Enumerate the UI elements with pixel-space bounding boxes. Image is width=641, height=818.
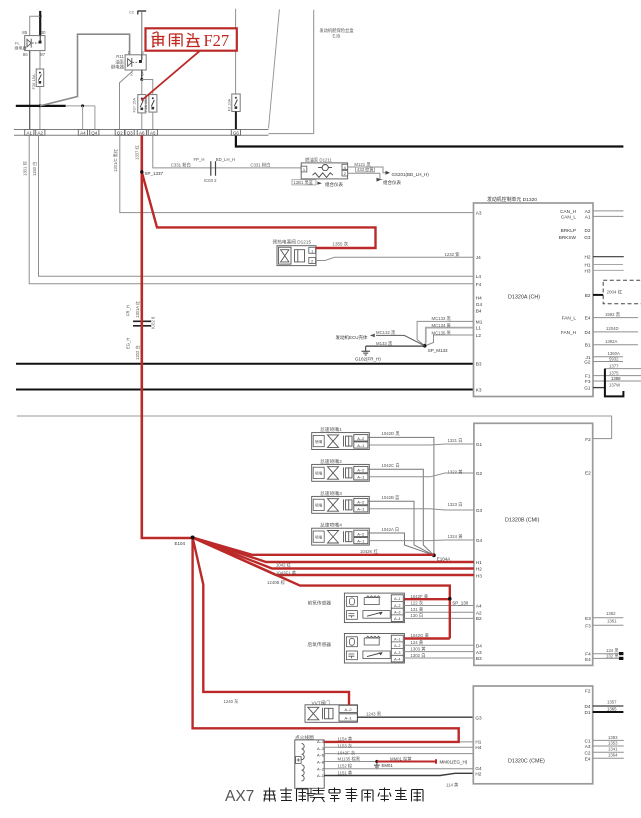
svg-text:L4: L4	[476, 274, 482, 279]
svg-text:A–2: A–2	[357, 500, 365, 505]
svg-text:Q2: Q2	[117, 130, 124, 135]
svg-text:1240 灰: 1240 灰	[224, 698, 240, 705]
wire F28 to bus A5	[152, 112, 154, 129]
wire G6 heavy output rail	[236, 135, 624, 146]
injector 4	[312, 522, 370, 545]
svg-text:C331 粉白: C331 粉白	[250, 162, 270, 169]
svg-text:G4: G4	[476, 302, 483, 307]
svg-text:喷嘴: 喷嘴	[315, 535, 323, 540]
svg-text:G3: G3	[475, 716, 482, 721]
svg-text:CAN_H: CAN_H	[560, 209, 576, 214]
wire into F27	[141, 80, 143, 95]
wire H3	[593, 269, 624, 271]
svg-text:1042F 灰: 1042F 灰	[338, 749, 356, 756]
wire red branch SP_1337 to D1215 pin1	[142, 172, 376, 248]
wire 124 rear O2 to ECU D4	[403, 644, 474, 646]
svg-text:1323 白: 1323 白	[448, 501, 463, 508]
svg-text:E104: E104	[175, 541, 186, 546]
wire loop to ECU2 F2	[17, 416, 612, 439]
relay FL	[25, 36, 45, 51]
svg-text:D1320A (CH): D1320A (CH)	[508, 295, 540, 301]
svg-text:1153 灰: 1153 灰	[338, 742, 353, 749]
svg-text:FAN_L: FAN_L	[562, 316, 577, 321]
wire drop to bus A4	[82, 106, 84, 130]
wire G1 heavy bracket	[605, 369, 624, 397]
node SP_M133 splice	[423, 344, 427, 348]
fuse F26 15A	[36, 69, 44, 87]
svg-text:怠速喷嘴1: 怠速喷嘴1	[320, 426, 342, 433]
rear oxygen sensor	[308, 634, 405, 664]
wire F2 to bus G6	[235, 112, 237, 130]
svg-text:L2: L2	[476, 333, 482, 338]
svg-text:30: 30	[41, 30, 46, 35]
svg-text:发动机控制单元 D1320: 发动机控制单元 D1320	[487, 196, 537, 203]
wire G1	[593, 387, 605, 389]
wire B1 1392A	[593, 344, 638, 346]
svg-text:F3: F3	[585, 623, 591, 628]
svg-text:A–1: A–1	[394, 597, 400, 601]
wire 1042 red to ECU2 H1	[193, 538, 474, 563]
svg-text:CAN_L: CAN_L	[561, 214, 577, 219]
svg-text:J4: J4	[476, 255, 481, 260]
svg-text:EM01: EM01	[382, 763, 394, 768]
svg-text:1042K 红: 1042K 红	[360, 548, 379, 554]
svg-text:H2: H2	[475, 771, 481, 776]
svg-text:A–3: A–3	[394, 651, 400, 655]
connector C331 inline pair	[211, 161, 216, 176]
svg-text:F26 15A: F26 15A	[31, 74, 36, 89]
svg-text:继电器: 继电器	[111, 64, 125, 71]
svg-text:A6: A6	[139, 130, 145, 135]
svg-text:C2: C2	[129, 11, 134, 15]
svg-text:A–1: A–1	[357, 539, 365, 544]
node bus cell Q3	[125, 130, 134, 136]
svg-text:怠速喷嘴4: 怠速喷嘴4	[320, 522, 342, 529]
svg-text:1321 白: 1321 白	[448, 437, 463, 444]
wire FAN_H D4 1204D	[593, 331, 638, 333]
wire 1042A injector4 A-2 to E104A	[368, 533, 434, 555]
svg-text:137W: 137W	[609, 382, 621, 387]
wire 131 front O2 to ECU A2	[403, 611, 474, 613]
svg-text:D1: D1	[585, 710, 591, 715]
svg-text:D4: D4	[585, 704, 591, 709]
wire MC132 ECU housing to splice	[376, 335, 425, 345]
svg-text:B1: B1	[585, 343, 591, 348]
svg-text:A–2: A–2	[394, 604, 400, 608]
svg-text:BD_LH_H: BD_LH_H	[216, 157, 235, 162]
svg-text:A–1: A–1	[357, 475, 365, 480]
svg-text:FL: FL	[15, 40, 20, 45]
svg-text:D1320B (CMI): D1320B (CMI)	[505, 518, 540, 524]
svg-text:1362: 1362	[606, 611, 616, 616]
svg-text:F3: F3	[585, 379, 591, 384]
svg-text:1240B 棕: 1240B 棕	[267, 579, 286, 586]
node bus cell A2	[36, 130, 45, 136]
wire supply to fuse F2	[235, 9, 237, 94]
svg-text:A2: A2	[585, 209, 591, 214]
svg-text:SP_130: SP_130	[452, 600, 469, 605]
wire to ECU2 H3	[193, 538, 474, 576]
svg-text:H3: H3	[585, 268, 591, 273]
svg-text:1360A: 1360A	[608, 351, 621, 356]
svg-text:A–4: A–4	[317, 739, 325, 744]
wire heavy feed bar	[16, 105, 66, 107]
svg-text:1392A: 1392A	[605, 339, 618, 344]
node bus cell A4	[78, 130, 87, 136]
GROUPS INSERTED BELOW	[15, 11, 130, 130]
svg-text:E4: E4	[585, 316, 591, 321]
wire 1240B to SP_130 oxygen heaters	[193, 538, 450, 639]
svg-text:A–2: A–2	[357, 436, 365, 441]
svg-text:A–4: A–4	[394, 617, 400, 621]
wire relay FL pin 87 to fuse F26	[39, 51, 41, 69]
svg-text:A–2: A–2	[317, 766, 324, 771]
fuse F28 10A	[149, 95, 157, 113]
svg-text:1042C 白: 1042C 白	[382, 462, 400, 469]
wire 1377	[605, 368, 641, 370]
wire 122 front O2 to ECU A4	[403, 605, 474, 607]
svg-text:A–1: A–1	[317, 773, 324, 778]
svg-text:D1320C (CME): D1320C (CME)	[508, 759, 545, 765]
wire R11 pin 5 to fuses	[141, 70, 143, 80]
svg-text:Q4: Q4	[91, 130, 98, 135]
wire F3 1388	[593, 380, 641, 382]
wire 1152 coil A-2 to ECU3 G4	[324, 768, 473, 770]
svg-text:F2: F2	[585, 437, 591, 442]
node bus cell Q4	[90, 130, 99, 136]
svg-text:MC134 黄: MC134 黄	[432, 322, 452, 329]
svg-text:M1135 棕黑: M1135 棕黑	[338, 756, 361, 763]
wire CAN_H A2	[593, 210, 623, 212]
svg-text:BRKSW: BRKSW	[559, 235, 577, 240]
node E104	[191, 536, 195, 540]
svg-text:继电器: 继电器	[15, 45, 27, 51]
svg-text:组合仪表: 组合仪表	[383, 179, 401, 186]
svg-text:FAN_H: FAN_H	[561, 330, 576, 335]
wire 1154 coil A-4 to ECU3 H1	[324, 741, 473, 743]
svg-text:Q3: Q3	[127, 130, 134, 135]
svg-text:H4: H4	[475, 745, 481, 750]
svg-text:怠速喷嘴3: 怠速喷嘴3	[320, 490, 342, 497]
svg-text:1324 黄: 1324 黄	[448, 533, 464, 540]
svg-text:85: 85	[22, 30, 27, 35]
node E104A	[432, 553, 436, 557]
svg-text:A–2: A–2	[345, 707, 353, 712]
svg-text:1042F1 黄: 1042F1 黄	[276, 570, 297, 577]
label callout fuse F27	[142, 51, 201, 101]
svg-text:E2: E2	[585, 470, 591, 475]
svg-text:A–2: A–2	[357, 531, 365, 536]
svg-text:D4: D4	[585, 330, 591, 335]
svg-text:A2: A2	[476, 610, 482, 615]
svg-text:433 棕黄: 433 棕黄	[357, 166, 374, 173]
svg-text:G102(FR_H): G102(FR_H)	[355, 356, 381, 361]
wire 1042F1 to ECU2 H2	[193, 538, 474, 569]
svg-text:131 黄: 131 黄	[411, 606, 424, 613]
svg-text:1322 黄: 1322 黄	[448, 468, 464, 475]
svg-text:G1: G1	[584, 386, 591, 391]
svg-text:1375: 1375	[609, 370, 619, 375]
svg-text:1232 紫: 1232 紫	[445, 252, 461, 257]
wire MC134 ECU L1 to splice	[425, 328, 474, 346]
ECU D1320B	[474, 423, 593, 665]
wire F1 1375	[593, 375, 641, 377]
svg-text:L1: L1	[476, 326, 482, 331]
svg-text:预热电塞阀 D1215: 预热电塞阀 D1215	[273, 239, 312, 246]
fuse F27 15A	[138, 95, 146, 113]
svg-text:SP_1337: SP_1337	[145, 171, 164, 176]
svg-text:114 黄: 114 黄	[446, 782, 459, 789]
wire FAN_L E4 1592	[593, 317, 638, 319]
svg-text:1341: 1341	[608, 746, 618, 751]
EJB enclosure boundary diagonal	[269, 9, 280, 128]
svg-text:B3: B3	[476, 362, 482, 367]
svg-text:EG_H: EG_H	[126, 338, 131, 349]
wire 1151 coil A-1 to ECU3 H2	[324, 773, 473, 775]
wire 1042D injector1 A-2 to E104A	[368, 437, 434, 555]
wire MM01 ground jumper	[377, 759, 436, 763]
svg-text:H3: H3	[476, 574, 482, 579]
svg-text:1150 白: 1150 白	[31, 162, 38, 176]
wire ECU B3 long black	[16, 363, 474, 365]
wire B2 to connector 2004	[593, 294, 603, 296]
svg-text:E3: E3	[585, 616, 591, 621]
svg-text:A4: A4	[476, 603, 482, 608]
svg-text:BRKLP: BRKLP	[561, 228, 576, 233]
front oxygen sensor	[308, 593, 405, 623]
svg-text:2004 红: 2004 红	[607, 288, 623, 294]
wire M133 splice to ground	[366, 345, 425, 347]
svg-text:1337 红: 1337 红	[133, 145, 139, 160]
svg-text:86: 86	[23, 52, 28, 57]
node junction to A4	[81, 104, 84, 107]
svg-text:前氧传感器: 前氧传感器	[308, 600, 332, 607]
svg-text:1301 棕: 1301 棕	[21, 161, 28, 176]
svg-text:后氧传感器: 后氧传感器	[308, 641, 332, 648]
relay R11 fuel pump relay	[125, 55, 146, 70]
svg-text:FP_H: FP_H	[194, 157, 205, 162]
bus bar connector strip	[14, 130, 269, 136]
svg-text:1357: 1357	[607, 700, 617, 705]
wire 1153 coil A-3 to ECU3 H4	[324, 746, 473, 748]
wire M1135 to ground EM01	[324, 761, 377, 763]
node bus cell Q2	[115, 130, 124, 136]
svg-text:A–3: A–3	[317, 746, 324, 751]
node EM01	[375, 760, 378, 763]
wire 1322 injector2 A-1 to ECU G2	[368, 473, 474, 477]
node pin5 split	[140, 78, 143, 81]
svg-text:EJB: EJB	[333, 33, 341, 38]
svg-text:A–6: A–6	[317, 753, 324, 758]
svg-text:5932: 5932	[609, 357, 619, 362]
svg-text:AX7: AX7	[225, 788, 254, 805]
svg-text:A–1: A–1	[357, 507, 365, 512]
svg-text:A3: A3	[585, 744, 591, 749]
svg-text:FR_H: FR_H	[126, 305, 131, 316]
svg-text:SP_M133: SP_M133	[428, 348, 448, 353]
svg-text:1302 白: 1302 白	[411, 652, 426, 659]
wire 1303 rear O2 to ECU A3	[403, 651, 474, 653]
wire branch to F28	[142, 80, 153, 95]
wire 1042B injector3 A-2 to E104A	[368, 501, 434, 555]
node bus cell G6	[231, 130, 240, 136]
wire front O2 heater feed	[404, 598, 449, 600]
svg-text:G4: G4	[476, 538, 483, 543]
wire J1 1360A	[593, 356, 623, 358]
svg-text:A3: A3	[476, 211, 482, 216]
svg-text:喷嘴: 喷嘴	[315, 503, 323, 508]
node bus cell A6	[137, 130, 146, 136]
wire 1243 VVT A-1 to ECU3 G3	[357, 716, 473, 718]
svg-text:G1: G1	[476, 442, 483, 447]
svg-text:M1: M1	[476, 319, 483, 324]
wire drop to bus Q4	[94, 106, 96, 130]
svg-text:1393: 1393	[608, 735, 618, 740]
wire to ignition coil 1154	[193, 538, 459, 742]
svg-text:1201/C 黑红: 1201/C 黑红	[112, 149, 119, 172]
wire relay FL pin 86 to bus A1	[29, 51, 31, 130]
svg-text:G4: G4	[475, 766, 482, 771]
wire gray feed continuation	[66, 105, 95, 107]
wire coil loop to pin 85	[30, 16, 41, 35]
wire battery feed to relay FL pin 30	[39, 11, 41, 36]
node fuse F26 output junction	[38, 104, 41, 107]
svg-text:1301A 红: 1301A 红	[134, 301, 140, 318]
svg-text:G3: G3	[584, 235, 591, 240]
wire 1302 rear O2 to ECU B3	[403, 657, 474, 659]
svg-text:F2: F2	[585, 688, 591, 693]
wire M121 pin4 to ground GS201	[348, 167, 386, 173]
wire 1301 brown A1 to ECU F4	[29, 135, 473, 284]
svg-text:1365: 1365	[607, 706, 617, 711]
wire fuse F26 to bus A2	[39, 87, 41, 130]
injector 2	[312, 458, 370, 481]
wire 1232 violet D1215 pin2 to ECU J4	[316, 257, 474, 260]
connector 2004 dashed box	[603, 280, 641, 304]
svg-text:F4: F4	[476, 282, 482, 287]
svg-text:A–2: A–2	[357, 468, 365, 473]
svg-text:K3: K3	[476, 388, 482, 393]
svg-text:H2: H2	[476, 567, 482, 572]
svg-text:C331 粉白: C331 粉白	[171, 162, 191, 169]
svg-text:1204D: 1204D	[606, 326, 619, 331]
wire G2 5932	[593, 361, 623, 363]
connector IC02 8 on main red wire	[133, 321, 151, 326]
wire ECU K3 long black	[16, 389, 474, 391]
svg-text:G2: G2	[584, 360, 591, 365]
injector 3	[312, 490, 370, 513]
svg-text:1388: 1388	[611, 376, 621, 381]
svg-text:87: 87	[40, 52, 45, 57]
wire 1042C injector2 A-2 to E104A	[368, 469, 434, 555]
svg-text:1151 黄: 1151 黄	[338, 770, 353, 777]
svg-text:怠速喷嘴2: 怠速喷嘴2	[320, 458, 342, 465]
svg-text:E4: E4	[585, 756, 591, 761]
node SP_1337	[140, 170, 143, 173]
svg-text:F2 10A: F2 10A	[228, 98, 232, 111]
svg-text:B4: B4	[476, 309, 482, 314]
wire 433 pin2 to cluster	[356, 167, 375, 172]
wire 1324 injector4 A-1 to ECU G4	[368, 539, 474, 542]
svg-text:G2: G2	[476, 471, 483, 476]
svg-text:A–4: A–4	[394, 658, 400, 662]
wire diagonal feed up to R11 loop	[40, 34, 130, 106]
wire rear O2 heater feed	[404, 637, 449, 639]
wire MC133 ECU M1 to splice	[417, 321, 473, 345]
svg-text:IC02 8: IC02 8	[151, 316, 156, 329]
svg-text:组合仪表: 组合仪表	[325, 181, 343, 188]
svg-text:A3: A3	[476, 650, 482, 655]
svg-text:B2: B2	[476, 616, 482, 621]
svg-text:发动机ECU壳体: 发动机ECU壳体	[335, 334, 368, 341]
wire H1	[593, 264, 623, 266]
svg-text:A–3: A–3	[394, 611, 400, 615]
svg-text:1042B 蓝: 1042B 蓝	[382, 494, 401, 500]
wire F27 to bus A6	[141, 113, 143, 130]
svg-text:喷嘴: 喷嘴	[315, 439, 323, 444]
svg-text:E4: E4	[585, 657, 591, 662]
wire A5 fuel pump feed FP_H	[153, 135, 301, 168]
svg-text:A–1: A–1	[345, 716, 353, 721]
svg-text:A5: A5	[150, 130, 156, 135]
svg-text:D2: D2	[585, 228, 591, 233]
svg-text:122 灰: 122 灰	[411, 600, 424, 607]
svg-text:A–2: A–2	[394, 644, 400, 648]
svg-text:F27 15A: F27 15A	[132, 98, 136, 113]
svg-text:A1: A1	[585, 214, 591, 219]
svg-text:1353: 1353	[608, 740, 618, 745]
injector 1	[312, 426, 370, 449]
svg-text:1377: 1377	[609, 363, 619, 368]
svg-text:1042 红: 1042 红	[276, 562, 292, 568]
wire 1337 red main fused feed	[142, 135, 193, 538]
svg-text:D4: D4	[476, 644, 482, 649]
svg-text:A–8: A–8	[317, 759, 324, 764]
svg-text:1355 灰: 1355 灰	[333, 240, 349, 247]
wire 1042K red to injectors common	[193, 538, 434, 555]
wire CAN_L A1	[593, 215, 623, 217]
svg-text:H1: H1	[585, 263, 591, 268]
svg-text:1202 白: 1202 白	[134, 345, 141, 360]
svg-text:C2: C2	[585, 750, 591, 755]
connector 12B1 label to cluster	[292, 180, 316, 185]
svg-text:H1: H1	[476, 560, 482, 565]
svg-text:A–1: A–1	[357, 443, 365, 448]
wire H2	[593, 256, 624, 258]
wire 1321 injector1 A-1 to ECU G1	[368, 444, 474, 445]
svg-text:B2: B2	[585, 293, 591, 298]
ground G102	[362, 346, 370, 355]
ECU D1320C	[473, 686, 592, 784]
EJB enclosure right edge	[269, 10, 314, 134]
svg-text:1361: 1361	[607, 619, 617, 624]
wire 1323 injector3 A-1 to ECU G3	[368, 509, 474, 510]
svg-text:130 白: 130 白	[411, 612, 424, 619]
svg-text:A4: A4	[80, 130, 86, 135]
wire MC135 ECU L2 to splice	[425, 335, 474, 346]
wire 1042F grey	[324, 753, 473, 755]
svg-text:喷嘴: 喷嘴	[315, 471, 323, 476]
node bus cell A1	[25, 130, 34, 136]
fuse F2 10A	[232, 94, 240, 112]
svg-text:F27: F27	[204, 31, 230, 50]
svg-text:G3: G3	[476, 508, 483, 513]
svg-text:1364: 1364	[608, 753, 618, 758]
svg-text:GS201(BD_LH_H): GS201(BD_LH_H)	[392, 172, 430, 177]
svg-text:IC03 2: IC03 2	[204, 178, 217, 183]
svg-text:H2: H2	[585, 255, 591, 260]
wire R11 pin 2 to bus Q2	[120, 70, 133, 130]
